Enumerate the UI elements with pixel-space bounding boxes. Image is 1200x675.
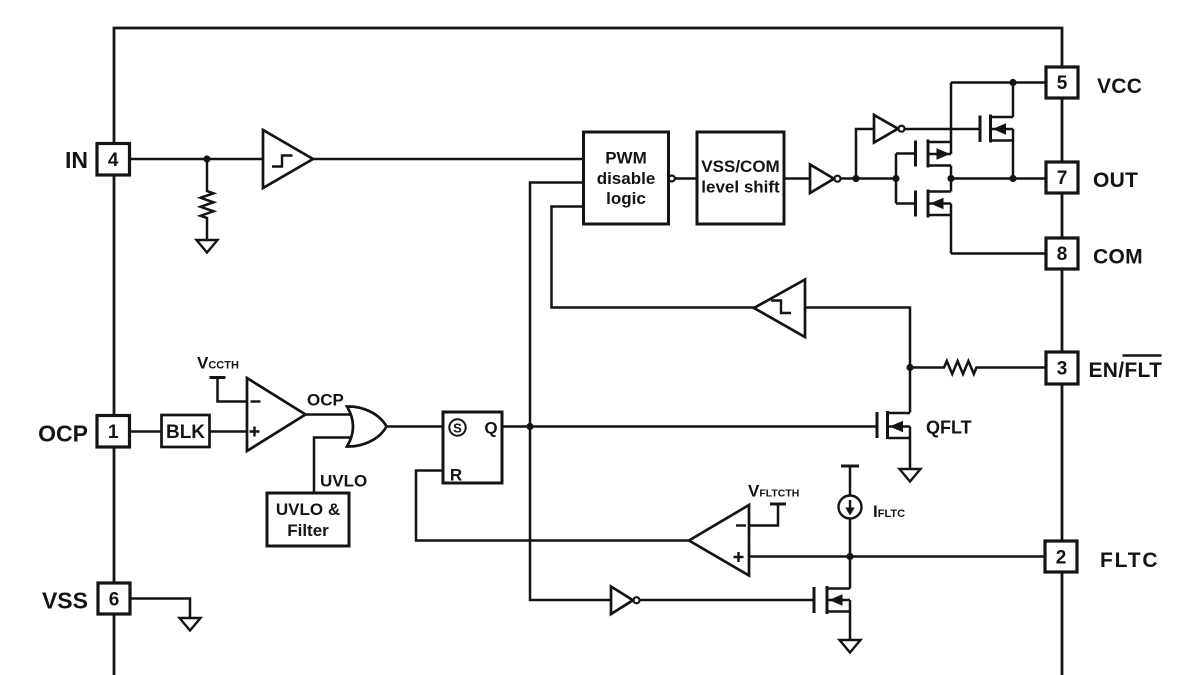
svg-text:BLK: BLK: [166, 422, 205, 443]
svg-text:OCP: OCP: [307, 391, 344, 410]
wire latch Q to QFLT gate: [502, 425, 877, 428]
ground (QFLT source): [900, 469, 921, 482]
wire EN feedback to PWM: [552, 207, 755, 308]
svg-text:3: 3: [1057, 359, 1068, 380]
pin 6: [98, 583, 130, 614]
svg-text:5: 5: [1057, 73, 1068, 94]
transistor Q4 (FLTC discharge): [813, 587, 816, 613]
inverter U2: [874, 115, 898, 143]
wire IN pin to schmitt: [129, 158, 263, 161]
node driver input: [852, 175, 859, 182]
resistor R1 (IN pulldown): [201, 159, 214, 240]
svg-text:EN/FLT: EN/FLT: [1089, 359, 1163, 382]
pin 7: [1046, 162, 1078, 193]
node Q net junction: [526, 423, 533, 430]
svg-text:COM: COM: [1093, 246, 1143, 269]
wire VCC rail: [951, 81, 1046, 84]
pin 8: [1046, 238, 1078, 269]
svg-text:8: 8: [1057, 244, 1068, 265]
svg-text:R: R: [450, 466, 462, 485]
node OUT b: [1009, 175, 1016, 182]
Vfltcth reference: [749, 504, 778, 526]
wire schmitt to PWM logic: [313, 158, 583, 161]
node EN: [906, 364, 913, 371]
inverter U3: [810, 165, 834, 194]
node OUT a: [947, 175, 954, 182]
ground (Q4 source): [840, 640, 861, 653]
wire level shift to inverter U3: [784, 177, 810, 180]
svg-text:S: S: [453, 420, 462, 435]
wire comparator to OR gate: [306, 413, 353, 416]
wire OUT rail: [951, 177, 1046, 180]
svg-text:Filter: Filter: [287, 521, 329, 540]
node gate pair: [892, 175, 899, 182]
svg-text:FLTC: FLTC: [1100, 549, 1159, 572]
latch U8 (SR): [443, 412, 502, 483]
svg-text:UVLO: UVLO: [320, 472, 367, 491]
svg-text:disable: disable: [597, 169, 656, 188]
svg-text:level shift: level shift: [701, 178, 780, 197]
current source IFLTC: [841, 465, 859, 468]
inverter U10: [611, 587, 633, 615]
transistor Q3 (clamp NMOS): [979, 116, 982, 143]
svg-text:QFLT: QFLT: [926, 418, 972, 438]
PWM disable logic block: [584, 132, 669, 224]
ground (VSS): [180, 618, 201, 631]
transistor Q2 (output NMOS): [896, 202, 915, 205]
wire OCP pin to BLK: [129, 430, 161, 433]
svg-text:OCP: OCP: [38, 421, 88, 447]
svg-text:7: 7: [1057, 168, 1068, 189]
wire U10 to Q4 gate: [640, 599, 814, 602]
comparator U9 (FLTC): [689, 505, 749, 576]
pin 2: [1045, 541, 1077, 572]
svg-text:UVLO &: UVLO &: [276, 500, 340, 519]
comparator U6 (OCP): [247, 378, 306, 451]
pin 1: [97, 416, 130, 448]
schmitt inverter U5 (EN): [805, 308, 910, 368]
wire U2 to Q3 gate: [905, 128, 981, 131]
node FLTC: [846, 553, 853, 560]
transistor QFLT: [909, 368, 912, 413]
transistor Q1 (output PMOS): [896, 152, 915, 155]
svg-text:IN: IN: [65, 147, 88, 173]
wire PWM to level shift: [675, 177, 697, 180]
wire UVLO to OR gate: [314, 438, 352, 494]
wire gate pair vertical: [895, 154, 898, 204]
wire VSS pin to ground: [129, 599, 190, 619]
block UVLO & Filter: [267, 493, 349, 546]
block BLK: [162, 415, 210, 447]
pin 5: [1046, 67, 1078, 98]
node IN junction: [203, 155, 210, 162]
or-gate U7: [347, 406, 387, 446]
svg-text:logic: logic: [606, 189, 646, 208]
Vccth reference: [210, 376, 226, 379]
node VCC: [1009, 79, 1016, 86]
wire COM rail: [951, 252, 1046, 255]
svg-text:OUT: OUT: [1093, 169, 1138, 192]
VSS/COM level shift block: [697, 132, 784, 224]
svg-text:VSS: VSS: [42, 588, 88, 614]
svg-text:PWM: PWM: [605, 149, 647, 168]
ground (under R1): [197, 240, 218, 253]
pin 4: [97, 144, 130, 176]
pin 3: [1046, 352, 1078, 384]
svg-text:1: 1: [108, 422, 119, 443]
svg-text:2: 2: [1056, 548, 1067, 569]
resistor R2 (EN/FLT): [910, 361, 1046, 374]
wire OR to latch S: [387, 425, 444, 428]
schmitt buffer U1 (IN): [263, 130, 313, 188]
PWM output bubble: [669, 176, 675, 182]
wire U3 to driver node: [841, 177, 897, 180]
svg-text:4: 4: [108, 150, 119, 171]
svg-text:Q: Q: [484, 419, 497, 438]
wire FLTC pin line: [749, 555, 1045, 558]
wire BLK to comparator: [210, 430, 248, 433]
wire up to inverter U2: [856, 129, 874, 179]
svg-text:VSS/COM: VSS/COM: [701, 157, 779, 176]
wire latch R from FLTC comparator: [416, 471, 689, 541]
IC boundary: [114, 28, 1062, 675]
wire net QBAR vertical (latch Q to PWM and inverter): [530, 183, 611, 601]
svg-text:VCC: VCC: [1097, 75, 1142, 98]
svg-text:6: 6: [109, 590, 120, 611]
